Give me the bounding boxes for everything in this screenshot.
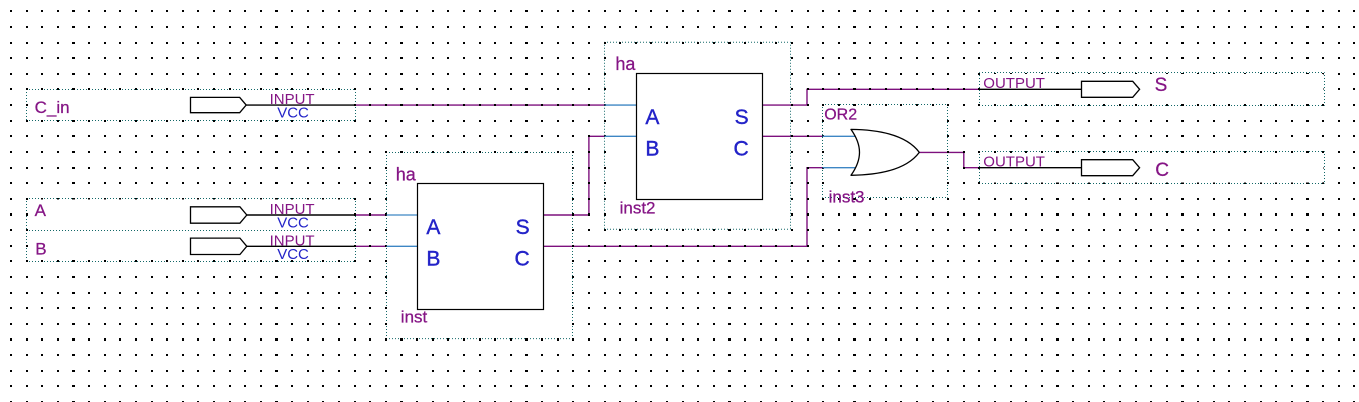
wire inst.S to inst2.B: [544, 136, 605, 215]
wire inst2.S to OUTPUT S: [763, 89, 980, 105]
svg-text:OUTPUT: OUTPUT: [983, 153, 1045, 170]
half adder inst selection box: [387, 153, 573, 339]
OR2 gate inst3 selection box: [823, 105, 948, 198]
half adder inst2 body: [637, 74, 763, 200]
svg-text:C: C: [515, 247, 530, 270]
svg-text:C: C: [734, 138, 749, 161]
wire C_in to inst2.A: [355, 104, 604, 106]
svg-text:B: B: [35, 239, 46, 258]
input pin C_in symbol: [191, 91, 356, 122]
half adder inst stub B: [387, 245, 418, 247]
svg-text:VCC: VCC: [277, 215, 309, 232]
svg-text:ha: ha: [615, 54, 636, 74]
wire inst.C to OR2 lower input: [544, 168, 823, 247]
svg-text:VCC: VCC: [277, 246, 309, 263]
svg-text:inst: inst: [401, 308, 428, 327]
svg-text:inst3: inst3: [829, 188, 865, 207]
svg-text:B: B: [426, 247, 440, 270]
half adder inst body: [418, 184, 544, 310]
svg-text:C: C: [1155, 160, 1169, 181]
output pin C selection box: [980, 152, 1325, 184]
OR2 gate body: [851, 129, 919, 175]
OR2 gate stub lower: [823, 167, 858, 169]
svg-text:VCC: VCC: [277, 104, 309, 121]
half adder inst2 stub A: [605, 104, 637, 106]
svg-text:S: S: [516, 216, 530, 239]
wire OR2 output to OUTPUT C: [919, 152, 979, 167]
input pin B symbol: [191, 232, 356, 263]
svg-text:B: B: [645, 138, 659, 161]
half adder inst2 selection box: [605, 42, 791, 229]
output pin S symbol: [980, 75, 1140, 97]
svg-text:C_in: C_in: [35, 98, 70, 117]
wire inst2.C to OR2 upper input: [763, 135, 823, 137]
svg-text:OUTPUT: OUTPUT: [983, 75, 1045, 92]
svg-text:S: S: [1155, 75, 1168, 96]
svg-text:A: A: [645, 106, 659, 129]
wire A to inst.A: [355, 214, 386, 216]
svg-text:A: A: [35, 201, 47, 220]
half adder inst2 stub B: [605, 135, 637, 137]
input pin C_in selection box: [27, 90, 356, 121]
svg-text:inst2: inst2: [620, 199, 656, 218]
wire B to inst.B: [355, 245, 386, 247]
input pin B selection box: [27, 231, 356, 262]
half adder inst stub A: [387, 214, 418, 216]
input pin A selection box: [27, 199, 356, 231]
svg-text:S: S: [735, 106, 749, 129]
svg-text:A: A: [426, 216, 440, 239]
svg-text:OR2: OR2: [824, 107, 857, 124]
input pin A symbol: [191, 201, 356, 232]
OR2 gate stub upper: [823, 135, 858, 137]
output pin C symbol: [980, 153, 1140, 175]
svg-text:ha: ha: [396, 164, 417, 184]
output pin S selection box: [980, 73, 1325, 106]
